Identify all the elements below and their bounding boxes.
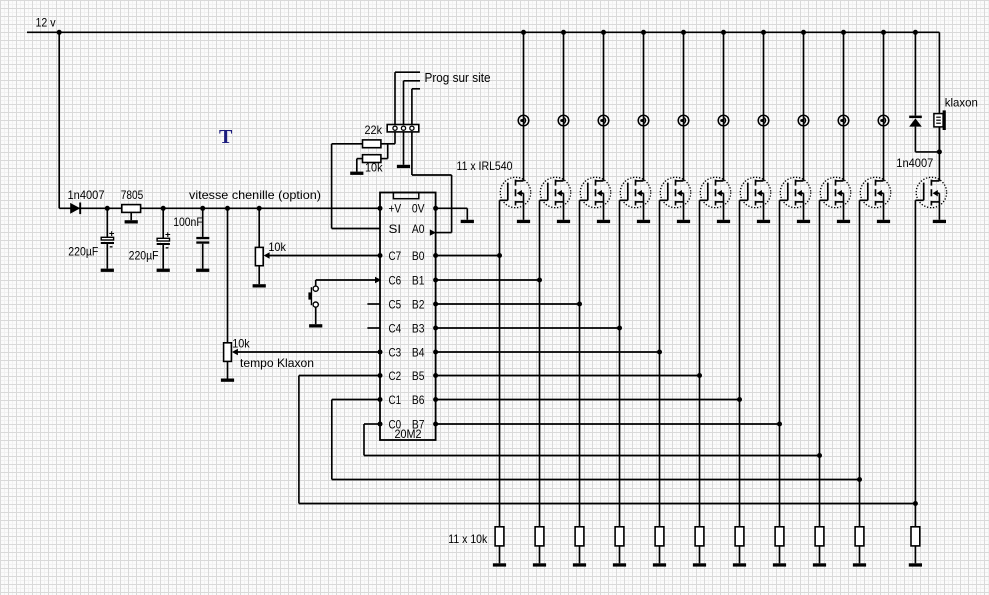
svg-text:C4: C4 — [389, 322, 402, 335]
label 220uF C1 — [68, 244, 98, 258]
wire source Q2 — [563, 202, 565, 220]
label klaxon — [945, 96, 978, 110]
wire source Q3 — [603, 202, 605, 220]
ground Q9 — [837, 220, 850, 223]
svg-text:10k: 10k — [268, 240, 286, 254]
lamp L1 — [518, 115, 529, 126]
ground Q10 — [877, 220, 890, 223]
label 11 x 10k — [448, 532, 488, 546]
ground Rg3 — [573, 563, 586, 566]
wire B0 to gate Q1 — [436, 255, 500, 257]
svg-text:11 x IRL540: 11 x IRL540 — [457, 159, 513, 173]
svg-text:C6: C6 — [389, 274, 402, 287]
transistor Q10 IRL540 — [860, 177, 891, 207]
wire gate Q1 — [499, 200, 501, 527]
wire source Q4 — [643, 202, 645, 220]
svg-text:11 x 10k: 11 x 10k — [448, 532, 488, 546]
wire drain Q3 — [603, 32, 605, 181]
node rail tap Q4 — [641, 30, 646, 35]
wire drain Q1 — [523, 32, 525, 181]
wire drain Q2 — [563, 32, 565, 181]
wire B6 to gate Q7 — [436, 399, 740, 401]
ground Rg4 — [613, 563, 626, 566]
ground 7805 — [125, 220, 138, 223]
wire gate Q3 — [579, 200, 581, 527]
wire Rg10 to ground — [859, 546, 861, 563]
wire 12V rail drop to klaxon — [938, 32, 940, 113]
wire source Q7 — [763, 202, 765, 220]
transistor Q3 IRL540 — [580, 177, 611, 207]
wire gate Q5 — [659, 200, 661, 527]
ground Rg1 — [493, 563, 506, 566]
wire Rg5 to ground — [659, 546, 661, 563]
wire left 12V drop — [58, 32, 60, 208]
label Prog sur site — [425, 71, 491, 85]
label 10k RV1 — [268, 240, 286, 254]
label 20M2 — [395, 427, 422, 441]
label vitesse chenille (option) — [189, 188, 321, 202]
wire klaxon to node — [938, 127, 940, 152]
wire source Q10 — [883, 202, 885, 220]
ground C3 — [196, 269, 209, 272]
pin A0 arrow — [430, 229, 436, 235]
wire Rg7 to ground — [739, 546, 741, 563]
resistor Rg9 10k — [815, 527, 824, 546]
wire source Q6 — [723, 202, 725, 220]
svg-text:22k: 22k — [365, 123, 383, 137]
svg-text:B0: B0 — [412, 250, 425, 263]
node C1 junction — [105, 206, 110, 211]
wire B1 to gate Q2 — [436, 279, 540, 281]
transistor Q4 IRL540 — [620, 177, 651, 207]
node B1-gate junction — [537, 278, 542, 283]
svg-text:1n4007: 1n4007 — [896, 156, 933, 170]
label 10k RV2 — [232, 337, 250, 351]
svg-text:C3: C3 — [389, 346, 402, 359]
ground SW1 — [309, 324, 322, 327]
node C1-gate junction — [857, 477, 862, 482]
wire drain Q6 — [723, 32, 725, 181]
wire Rg8 to ground — [779, 546, 781, 563]
svg-text:vitesse chenille (option): vitesse chenille (option) — [189, 188, 321, 202]
svg-text:-: - — [109, 240, 113, 252]
label tempo Klaxon — [240, 356, 314, 370]
transistor Q6 IRL540 — [700, 177, 731, 207]
ground RV2 — [221, 379, 234, 382]
wire gate Q8 — [779, 200, 781, 527]
node tempo branch — [225, 206, 230, 211]
svg-text:B2: B2 — [412, 298, 425, 311]
node klaxon bottom — [937, 149, 942, 154]
resistor Rg7 10k — [735, 527, 744, 546]
svg-text:B4: B4 — [412, 346, 425, 359]
diode D2 1n4007 flyback — [909, 116, 922, 127]
wire B2 to gate Q3 — [436, 303, 580, 305]
wire source Q9 — [843, 202, 845, 220]
lamp L7 — [758, 115, 769, 126]
ground Rg2 — [533, 563, 546, 566]
label 11 x IRL540 — [457, 159, 513, 173]
wire divider mid — [381, 144, 388, 159]
svg-text:10k: 10k — [232, 337, 250, 351]
node B4-gate junction — [657, 350, 662, 355]
ground Q3 — [597, 220, 610, 223]
lamp L3 — [598, 115, 609, 126]
wire Rg6 to ground — [699, 546, 701, 563]
lamp L5 — [678, 115, 689, 126]
ground Q4 — [637, 220, 650, 223]
svg-text:100nF: 100nF — [173, 215, 203, 229]
node rail tap Q2 — [561, 30, 566, 35]
ground Q7 — [757, 220, 770, 223]
wire 22k left to SI — [332, 144, 380, 229]
svg-text:tempo Klaxon: tempo Klaxon — [240, 356, 314, 370]
node rail tap Q3 — [601, 30, 606, 35]
node B5-gate junction — [697, 373, 702, 378]
ground Rg10 — [853, 563, 866, 566]
wire gate Q10 — [859, 200, 861, 527]
connector J1 prog header — [387, 125, 419, 132]
node rail tap Q10 — [881, 30, 886, 35]
resistor Rg8 10k — [775, 527, 784, 546]
wire source Q5 — [683, 202, 685, 220]
svg-text:B1: B1 — [412, 274, 425, 287]
ground Rg11 — [909, 563, 922, 566]
transistor Q8 IRL540 — [780, 177, 811, 207]
node C2-gate junction — [913, 501, 918, 506]
pushbutton SW1 — [308, 286, 318, 307]
wire gate Q7 — [739, 200, 741, 527]
node rail tap Q9 — [841, 30, 846, 35]
node B0-gate junction — [497, 253, 502, 258]
lamp L6 — [718, 115, 729, 126]
svg-text:220µF: 220µF — [68, 244, 98, 258]
wire drain Q11 upper — [938, 113, 940, 115]
wire header pin1 up — [395, 72, 420, 124]
ground Q1 — [517, 220, 530, 223]
IC U1 pin labels — [389, 203, 425, 432]
node B3-gate junction — [617, 326, 622, 331]
resistor Rg3 10k — [575, 527, 584, 546]
potentiometer RV1 10k — [255, 208, 380, 284]
resistor Rg2 10k — [535, 527, 544, 546]
node pin dots — [378, 206, 439, 427]
wire source Q8 — [803, 202, 805, 220]
ground Rg8 — [773, 563, 786, 566]
wire drain Q10 — [883, 32, 885, 181]
ground Rg6 — [693, 563, 706, 566]
capacitor C2 220uF — [157, 208, 171, 268]
diode 1n4007 — [70, 203, 80, 215]
ground Rg5 — [653, 563, 666, 566]
wire 12V top rail — [27, 31, 939, 33]
pin C6 arrow — [375, 277, 381, 283]
wire header pin3 up — [412, 89, 420, 125]
ground divider — [350, 172, 363, 175]
label T — [219, 126, 233, 148]
svg-text:B6: B6 — [412, 394, 425, 407]
lamp L8 — [798, 115, 809, 126]
label 12 v — [36, 16, 56, 30]
wire B4 to gate Q5 — [436, 351, 660, 353]
ground J1 pin2 — [397, 165, 410, 168]
label 1n4007 — [68, 188, 105, 202]
svg-text:C0: C0 — [389, 418, 402, 431]
ground C1 — [101, 269, 114, 272]
ground Q2 — [557, 220, 570, 223]
svg-text:T: T — [219, 126, 233, 148]
svg-text:SI: SI — [389, 223, 402, 236]
svg-text:C1: C1 — [389, 394, 402, 407]
transistor Q2 IRL540 — [540, 177, 571, 207]
svg-text:C7: C7 — [389, 250, 402, 263]
resistor R22 22k — [363, 140, 381, 148]
capacitor C3 100nF — [196, 208, 209, 268]
wire button to ground — [315, 307, 317, 324]
transistor Q1 IRL540 — [500, 177, 531, 207]
svg-text:10k: 10k — [365, 161, 383, 175]
svg-text:B3: B3 — [412, 322, 425, 335]
wire source Q11 — [938, 202, 940, 220]
wire gate Q11 — [914, 200, 916, 527]
resistor Rg5 10k — [655, 527, 664, 546]
wire drain Q9 — [843, 32, 845, 181]
wire Rg11 to ground — [914, 546, 916, 563]
node C0-gate junction — [817, 453, 822, 458]
ground RV1 — [253, 284, 266, 287]
node diode tap — [913, 30, 918, 35]
svg-text:12 v: 12 v — [36, 16, 56, 30]
ground Q11 — [933, 220, 946, 223]
node rail tap Q6 — [721, 30, 726, 35]
potentiometer RV2 10k tempo — [224, 343, 380, 379]
wire 10k left to ground — [357, 159, 363, 172]
wire header pin3 to A0 — [412, 132, 452, 233]
wire drain Q7 — [763, 32, 765, 181]
wire C1 to gate Q10 — [332, 400, 860, 480]
resistor Rg4 10k — [615, 527, 624, 546]
wire diode drop — [914, 32, 916, 115]
resistor Rg6 10k — [695, 527, 704, 546]
transistor Q9 IRL540 — [820, 177, 851, 207]
buzzer klaxon — [934, 110, 946, 130]
node C2 junction — [161, 206, 166, 211]
wire drain Q4 — [643, 32, 645, 181]
IC U1 20M2 body — [380, 193, 436, 441]
wire Rg3 to ground — [579, 546, 581, 563]
wire supply line to +V — [59, 207, 380, 209]
wire C0 to gate Q9 — [364, 424, 820, 456]
wire header pin2 to ground — [403, 132, 405, 165]
wire diode to node — [915, 127, 939, 152]
wire C6 to button — [316, 280, 380, 286]
resistor Rg10 10k — [855, 527, 864, 546]
node 12V rail / left branch — [57, 30, 62, 35]
ground Rg9 — [813, 563, 826, 566]
wire Rg4 to ground — [619, 546, 621, 563]
resistor Rg11 10k — [911, 527, 920, 546]
node pot RV1 junction — [257, 206, 262, 211]
wire 0V to ground — [436, 208, 468, 220]
wire tempo branch drop — [227, 208, 229, 342]
svg-text:220µF: 220µF — [129, 248, 159, 262]
wire gate Q4 — [619, 200, 621, 527]
wire Rg9 to ground — [819, 546, 821, 563]
label 22k — [365, 123, 383, 137]
resistor Rg1 10k — [495, 527, 504, 546]
wire header pin1 down — [381, 132, 395, 144]
wire B3 to gate Q4 — [436, 327, 620, 329]
label 1n4007 flyback — [896, 156, 933, 170]
label 100nF — [173, 215, 203, 229]
svg-text:A0: A0 — [412, 223, 425, 236]
ground Q5 — [677, 220, 690, 223]
svg-text:C2: C2 — [389, 370, 402, 383]
node B2-gate junction — [577, 302, 582, 307]
ground C2 — [157, 269, 170, 272]
lamp L2 — [558, 115, 569, 126]
svg-text:1n4007: 1n4007 — [68, 188, 105, 202]
node rail tap Q8 — [801, 30, 806, 35]
svg-text:B7: B7 — [412, 418, 425, 431]
ground Rg7 — [733, 563, 746, 566]
wire gate Q6 — [699, 200, 701, 527]
lamp L9 — [838, 115, 849, 126]
svg-text:0V: 0V — [412, 203, 425, 216]
svg-text:B5: B5 — [412, 370, 425, 383]
wire Rg1 to ground — [499, 546, 501, 563]
node rail tap Q7 — [761, 30, 766, 35]
resistor R10 10k — [363, 155, 381, 163]
pin C5 stub — [367, 303, 380, 305]
wire B5 to gate Q6 — [436, 375, 700, 377]
label 7805 — [121, 188, 144, 202]
node rail tap Q5 — [681, 30, 686, 35]
wire drain Q8 — [803, 32, 805, 181]
wire drain Q5 — [683, 32, 685, 181]
wire Rg2 to ground — [539, 546, 541, 563]
regulator 7805 — [122, 205, 141, 221]
node rail tap Q1 — [521, 30, 526, 35]
wire gate Q2 — [539, 200, 541, 527]
wire gate Q9 — [819, 200, 821, 527]
wire C2 to gate Q11 — [299, 376, 916, 504]
svg-text:klaxon: klaxon — [945, 96, 978, 110]
svg-text:+V: +V — [389, 203, 402, 216]
lamp L10 — [878, 115, 889, 126]
pin C4 stub — [367, 327, 380, 329]
capacitor C1 220uF — [101, 208, 115, 268]
svg-text:Prog sur site: Prog sur site — [425, 71, 491, 85]
svg-text:-: - — [165, 241, 169, 253]
transistor Q11 IRL540 — [915, 177, 946, 207]
wire header pin2 up — [404, 81, 421, 125]
transistor Q7 IRL540 — [740, 177, 771, 207]
label 220uF C2 — [129, 248, 159, 262]
transistor Q5 IRL540 — [660, 177, 691, 207]
wire B7 to gate Q8 — [436, 423, 780, 425]
ground 0V — [461, 220, 474, 223]
lamp L4 — [638, 115, 649, 126]
ground Q8 — [797, 220, 810, 223]
node C3 junction — [200, 206, 205, 211]
node B6-gate junction — [737, 397, 742, 402]
wire source Q1 — [523, 202, 525, 220]
svg-text:C5: C5 — [389, 298, 402, 311]
label 10k divider — [365, 161, 383, 175]
node B7-gate junction — [777, 422, 782, 427]
ground Q6 — [717, 220, 730, 223]
wire drain Q11 — [938, 127, 940, 181]
IC U1 top tab — [393, 193, 418, 199]
svg-text:7805: 7805 — [121, 188, 144, 202]
